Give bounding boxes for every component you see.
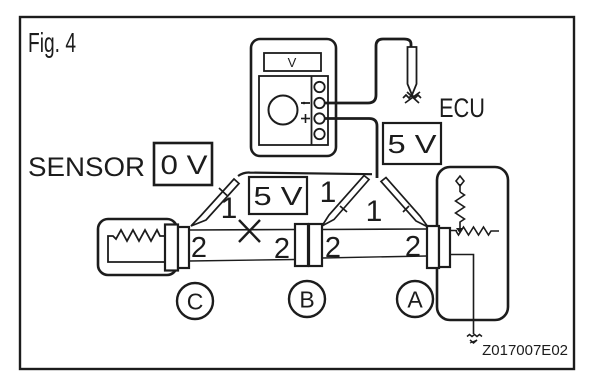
body ground contact starburst bbox=[403, 92, 421, 103]
ground symbol under ECU bbox=[467, 335, 482, 344]
svg-text:V: V bbox=[288, 55, 297, 70]
wire connector A to junction bbox=[450, 230, 457, 232]
wire: negative test lead to body ground probe bbox=[325, 39, 411, 103]
connector B right half bbox=[309, 224, 322, 266]
test probe at connector B terminal 1 bbox=[322, 176, 369, 227]
circled connector designator A bbox=[397, 281, 433, 317]
positive polarity mark bbox=[301, 114, 310, 123]
open circuit X mark bbox=[239, 220, 260, 242]
negative polarity mark bbox=[301, 102, 310, 105]
connector B left half bbox=[295, 224, 308, 266]
ECU box bbox=[437, 167, 508, 320]
svg-text:SENSOR: SENSOR bbox=[28, 152, 145, 182]
connector A harness-side half bbox=[427, 226, 439, 268]
circled connector designator B bbox=[289, 281, 325, 317]
svg-text:1: 1 bbox=[221, 192, 238, 225]
svg-text:Fig. 4: Fig. 4 bbox=[28, 27, 76, 58]
circled connector designator C bbox=[177, 283, 213, 319]
multimeter display window showing V bbox=[264, 53, 321, 71]
value box 0 V (sensor reading) bbox=[154, 143, 212, 185]
multimeter jack 1 bbox=[314, 82, 324, 92]
multimeter dial bbox=[269, 96, 298, 125]
ECU internal 5V supply arrow bbox=[456, 176, 464, 192]
svg-text:0 V: 0 V bbox=[161, 150, 208, 180]
multimeter jack 3 (positive) bbox=[314, 113, 324, 123]
svg-text:Z017007E02: Z017007E02 bbox=[482, 342, 568, 359]
svg-text:2: 2 bbox=[274, 233, 290, 265]
svg-text:A: A bbox=[407, 287, 423, 313]
ECU input resistor (horizontal) bbox=[456, 227, 499, 235]
test probe at connector A terminal 1 bbox=[381, 178, 428, 228]
wire segment terminal-1 line B to A bbox=[322, 228, 427, 231]
junction of resistors bbox=[456, 228, 463, 233]
svg-text:2: 2 bbox=[325, 232, 341, 264]
svg-text:2: 2 bbox=[191, 232, 207, 264]
value box 5 V (left, at connector B probe) bbox=[249, 177, 307, 214]
svg-text:C: C bbox=[187, 289, 204, 315]
sensor body bbox=[98, 219, 177, 275]
multimeter jack 2 (negative) bbox=[314, 98, 324, 108]
multimeter jack column divider bbox=[311, 76, 313, 145]
svg-text:1: 1 bbox=[320, 176, 337, 209]
svg-text:2: 2 bbox=[405, 231, 421, 263]
connector A ECU-side half bbox=[439, 228, 450, 267]
value box 5 V (right, ECU output) bbox=[383, 123, 441, 164]
wire connector A terminal 2 to ground bbox=[451, 255, 474, 335]
ground probe (negative lead) bbox=[408, 47, 417, 95]
svg-text:5 V: 5 V bbox=[388, 129, 438, 159]
svg-text:5 V: 5 V bbox=[254, 181, 304, 211]
ECU pull-up resistor (vertical) bbox=[456, 192, 465, 228]
wire segment terminal-2 line B to A bbox=[322, 256, 427, 258]
svg-text:ECU: ECU bbox=[439, 93, 485, 123]
wire: positive test lead down to probes bbox=[325, 119, 377, 179]
connector C sensor-side half bbox=[165, 225, 178, 271]
multimeter U1 body bbox=[251, 39, 336, 156]
wire: probe C lead to junction bbox=[238, 173, 372, 176]
multimeter jack 4 bbox=[314, 129, 324, 139]
test probe at connector C terminal 1 bbox=[191, 179, 239, 226]
sensor internal resistor element bbox=[108, 230, 165, 262]
svg-text:1: 1 bbox=[366, 195, 383, 228]
svg-text:B: B bbox=[299, 287, 314, 313]
wire segment terminal-1 line C to B bbox=[189, 229, 295, 232]
wire segment terminal-2 line C to B bbox=[189, 260, 295, 262]
multimeter front panel bbox=[259, 76, 328, 145]
connector C harness-side half bbox=[178, 227, 189, 268]
